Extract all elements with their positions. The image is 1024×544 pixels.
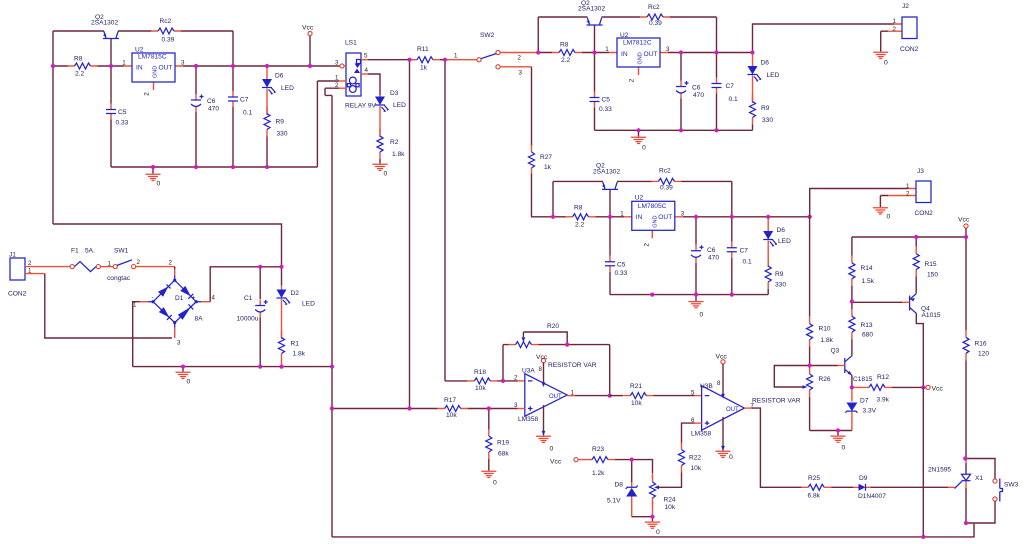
svg-text:R19: R19 [497, 440, 509, 447]
wire Q3 emitter to node [851, 375, 853, 387]
wire bottom rail y=536.9 [332, 523, 974, 537]
svg-text:0: 0 [842, 444, 846, 451]
svg-text:330: 330 [277, 131, 288, 138]
LED D6 [266, 66, 268, 115]
svg-text:LM7812C: LM7812C [623, 40, 652, 47]
ground R19 [488, 459, 490, 471]
junction block3 (696,216.8) [694, 215, 698, 219]
capacitor C7 0.1 [228, 91, 238, 107]
wire R27 to rail [532, 174, 554, 217]
junction U3B net (631.7,459.6) [630, 458, 634, 462]
svg-text:3: 3 [519, 70, 523, 77]
svg-text:10000u: 10000u [237, 316, 259, 323]
wire D9 to SCR gate [871, 486, 948, 488]
wire C6 column [195, 66, 197, 167]
wire pin6 to R22 [695, 422, 702, 424]
wire bridge pin4 up to C1 rail [202, 301, 211, 303]
junction block3 (809.7,216.8) [808, 215, 812, 219]
svg-text:470: 470 [693, 92, 704, 99]
svg-text:4: 4 [212, 295, 216, 302]
svg-text:RESISTOR VAR: RESISTOR VAR [752, 397, 801, 404]
capacitor C6 470 [191, 94, 204, 112]
svg-text:R10: R10 [819, 326, 831, 333]
wire left rail x=53 [52, 31, 54, 224]
svg-text:1: 1 [893, 18, 897, 25]
svg-text:D3: D3 [390, 90, 399, 97]
capacitor C1 10000u [259, 267, 261, 299]
Vcc port top right [964, 224, 968, 228]
resistor R21 10k [610, 395, 623, 397]
svg-text:2: 2 [169, 260, 173, 267]
svg-text:F1: F1 [71, 248, 79, 255]
junction bias net (851.9,387.4) [850, 385, 854, 389]
svg-text:2: 2 [518, 55, 522, 62]
svg-text:1: 1 [122, 60, 126, 67]
svg-text:Vcc: Vcc [716, 353, 728, 360]
junction U3A net (409.5,408.5) [407, 406, 411, 410]
svg-text:1: 1 [335, 75, 339, 82]
LED D3 [379, 95, 381, 137]
capacitor C7 0.1 [712, 78, 722, 94]
switch SW1 congtac [113, 265, 117, 269]
svg-text:120: 120 [978, 350, 989, 357]
junction U3A net (503,380.9) [501, 379, 505, 383]
svg-text:0: 0 [157, 181, 161, 188]
svg-text:3: 3 [181, 60, 185, 67]
svg-text:Rc2: Rc2 [648, 4, 660, 11]
svg-text:SW2: SW2 [480, 32, 495, 39]
svg-text:LS1: LS1 [345, 40, 357, 47]
switch SW3 pushbutton [993, 479, 997, 483]
wire ground rail y=294.6 [610, 294, 768, 296]
svg-text:2: 2 [893, 26, 897, 33]
junction (233,167) [231, 165, 235, 169]
capacitor C7 0.1 [727, 242, 737, 258]
svg-text:10k: 10k [691, 465, 702, 472]
svg-text:OUT: OUT [549, 394, 562, 400]
svg-text:LM358: LM358 [691, 430, 711, 437]
svg-text:-: - [152, 295, 154, 302]
svg-text:C1: C1 [244, 295, 253, 302]
svg-text:2: 2 [335, 82, 339, 89]
svg-text:10k: 10k [631, 400, 642, 407]
junction bottom net (966,523) [964, 521, 968, 525]
svg-text:0.39: 0.39 [649, 20, 662, 27]
wire fuse to SW1 [100, 266, 113, 268]
relay pin 4 wire to D3 [361, 73, 368, 75]
svg-text:0.33: 0.33 [599, 106, 612, 113]
svg-text:0: 0 [493, 480, 497, 487]
svg-text:Vcc: Vcc [536, 354, 548, 361]
wire feedback riser x=503 [502, 345, 504, 381]
svg-text:SW3: SW3 [1004, 482, 1019, 489]
svg-text:C5: C5 [602, 97, 611, 104]
junction (652.3,294.6) [650, 293, 654, 297]
junction block3 (553,216.8) [551, 215, 555, 219]
regulator U2 LM7805C [624, 217, 683, 239]
svg-text:LM7815C: LM7815C [138, 54, 167, 61]
svg-text:0.1: 0.1 [743, 258, 752, 265]
svg-text:8A: 8A [195, 316, 204, 323]
wire bridge minus ground rail y=366.6 [133, 366, 332, 368]
svg-text:3.9k: 3.9k [877, 397, 890, 404]
svg-text:R13: R13 [861, 322, 873, 329]
svg-text:2.2: 2.2 [575, 221, 584, 228]
svg-text:CON2: CON2 [8, 291, 27, 298]
transistor Q3 C1815 [844, 358, 846, 373]
svg-text:J3: J3 [917, 168, 924, 175]
resistor R2 1.8k [377, 129, 383, 159]
connector J2 CON2 [888, 24, 902, 31]
svg-text:U3A: U3A [522, 368, 535, 375]
relay pin 2 wire [339, 87, 346, 89]
junction (196,167) [194, 165, 198, 169]
svg-text:1.8k: 1.8k [821, 337, 834, 344]
switch SW2 [477, 58, 481, 62]
wire ground rail y=130.3 [595, 129, 753, 131]
svg-text:R9: R9 [775, 271, 784, 278]
svg-text:Rc2: Rc2 [659, 168, 671, 175]
svg-text:10k: 10k [475, 385, 486, 392]
wire R14 column [851, 237, 853, 309]
svg-text:1: 1 [133, 302, 137, 309]
ground R2 [379, 159, 381, 164]
svg-text:OUT: OUT [658, 214, 672, 221]
wire R23 to D8 and R24 [615, 460, 653, 473]
svg-text:GND: GND [638, 52, 644, 64]
resistor R13 680 [849, 309, 855, 339]
regulator U2 LM7812C [609, 53, 668, 76]
relay coil [349, 77, 356, 84]
wire left riser x=553 [552, 181, 554, 216]
svg-text:C5: C5 [118, 109, 127, 116]
bridge rectifier D1 8A [148, 276, 202, 328]
junction (332,366.6) [330, 365, 334, 369]
svg-text:470: 470 [708, 254, 719, 261]
junction R11 net (409.5,59.7) [407, 58, 411, 62]
wire riser to J3 [810, 189, 908, 217]
svg-text:A1015: A1015 [922, 312, 941, 319]
resistor R12 3.9k [852, 386, 862, 388]
junction block1 (310,66) [308, 64, 312, 68]
wire SW2 throw2 to block2 [500, 52, 538, 54]
relay pin 3 circle [340, 64, 344, 68]
relay pin 5 wire [361, 59, 368, 61]
svg-text:1: 1 [605, 46, 609, 53]
svg-text:congtac: congtac [107, 275, 131, 282]
junction U3B net (652.5,516.7) [650, 515, 654, 519]
svg-text:+: + [192, 295, 196, 302]
svg-text:0: 0 [887, 213, 891, 220]
wire Q4 collector jog [916, 313, 923, 387]
junction bottom net (965.3,458.5) [963, 456, 967, 460]
svg-text:1.5k: 1.5k [862, 278, 875, 285]
Vcc port R12 [923, 386, 926, 388]
capacitor C6 470 [676, 81, 689, 99]
svg-text:0.1: 0.1 [243, 110, 252, 117]
junction (716.5,130.3) [714, 128, 718, 132]
junction U3A net (332,408.5) [330, 406, 334, 410]
svg-text:R9: R9 [761, 105, 770, 112]
svg-text:D8: D8 [615, 482, 624, 489]
capacitor C5 0.33 [590, 92, 600, 108]
pot R20 wiper bracket [523, 332, 567, 345]
junction (638.5,130.3) [636, 128, 640, 132]
svg-text:R17: R17 [444, 397, 456, 404]
svg-text:R21: R21 [630, 383, 642, 390]
junction (681,130.3) [679, 128, 683, 132]
svg-text:C6: C6 [692, 85, 701, 92]
resistor R15 150 [915, 237, 917, 247]
svg-text:D2: D2 [291, 290, 300, 297]
zener D8 5.1V [631, 460, 633, 482]
svg-text:2SA1302: 2SA1302 [578, 6, 605, 13]
svg-text:R16: R16 [975, 340, 987, 347]
svg-text:5.1V: 5.1V [607, 498, 621, 505]
wire right column x=233 [232, 31, 234, 167]
SCR X1 2N1595 [965, 459, 967, 489]
wire top rail y=31 [53, 30, 233, 32]
wire R16 to SCR anode [965, 360, 967, 458]
junction input (281.5,266.8) [279, 265, 283, 269]
svg-text:R2: R2 [390, 139, 399, 146]
Vcc port U3B [721, 360, 725, 364]
wire main rail y=216.8 [553, 216, 810, 218]
junction R11 net (445,59.7) [443, 58, 447, 62]
relay pin 1 wire [339, 80, 346, 82]
svg-text:8: 8 [717, 380, 721, 387]
svg-text:SW1: SW1 [114, 248, 129, 255]
wire D6 R9 column [752, 125, 754, 131]
svg-text:Vcc: Vcc [550, 458, 562, 465]
svg-text:4: 4 [365, 67, 369, 74]
wire SW3 bracket top [966, 459, 995, 479]
wire top rail y=181.4 [553, 180, 732, 182]
ground block1 [152, 167, 154, 174]
svg-text:1.8k: 1.8k [392, 151, 405, 158]
wire bridge pin1 to ground rail [140, 301, 148, 303]
svg-text:2SA1302: 2SA1302 [593, 168, 620, 175]
resistor R10 1.8k [809, 217, 811, 317]
svg-text:RESISTOR VAR: RESISTOR VAR [548, 362, 597, 369]
svg-text:C7: C7 [240, 97, 249, 104]
svg-text:5: 5 [364, 53, 368, 60]
U3A pin4 ground [543, 405, 545, 436]
svg-text:10k: 10k [446, 412, 457, 419]
svg-text:3: 3 [681, 210, 685, 217]
svg-text:2: 2 [643, 243, 650, 247]
svg-text:1: 1 [906, 183, 910, 190]
junction bias net (966,237) [964, 235, 968, 239]
svg-text:Vcc: Vcc [958, 217, 970, 224]
svg-text:CON2: CON2 [915, 210, 934, 217]
resistor R11 1k [440, 59, 445, 61]
svg-text:CON2: CON2 [900, 46, 919, 53]
svg-text:2N1595: 2N1595 [928, 467, 951, 474]
zener D7 3.3V [851, 387, 853, 401]
diode D9 D1N4007 [853, 486, 871, 488]
junction block3 (731.8,216.8) [730, 215, 734, 219]
resistor R1 1.8k [279, 331, 285, 361]
svg-text:0.33: 0.33 [615, 270, 628, 277]
svg-text:R9: R9 [276, 119, 285, 126]
svg-text:IN: IN [636, 214, 643, 221]
junction bias net (851.9,301.5) [850, 299, 854, 303]
svg-text:6.8k: 6.8k [808, 492, 821, 499]
wire left riser x=538.25 [537, 17, 539, 53]
svg-text:0: 0 [384, 171, 388, 178]
junction bias net (809.6,365.5) [808, 363, 812, 367]
junction U3A net (567.2,344.6) [565, 343, 569, 347]
wire bridge pin3 stub [174, 328, 176, 339]
resistor R17 10k [438, 406, 468, 412]
wire R10 to junction [809, 347, 811, 366]
svg-text:10k: 10k [665, 504, 676, 511]
wire R24 D8 to ground [652, 502, 654, 517]
svg-text:U2: U2 [135, 47, 144, 54]
svg-text:1k: 1k [420, 65, 428, 72]
LED D2 [281, 267, 283, 285]
wire R22 to R24 wiper [659, 473, 682, 488]
fuse F1 5A [70, 265, 74, 269]
svg-text:0.39: 0.39 [162, 37, 175, 44]
svg-text:C6: C6 [707, 247, 716, 254]
resistor R18 10k [467, 378, 497, 384]
svg-text:IN: IN [621, 51, 628, 58]
wire D6 R9 column [266, 137, 268, 168]
junction block2 (752.5,52.5) [750, 50, 754, 54]
junction block3 (610,216.8) [608, 215, 612, 219]
svg-text:0.1: 0.1 [729, 96, 738, 103]
wire SW1 to bridge pin2 [136, 266, 175, 268]
capacitor C6 470 [691, 245, 704, 263]
wire vertical to R18 [444, 60, 446, 381]
svg-text:2.2: 2.2 [75, 71, 84, 78]
junction (183,366.6) [181, 365, 185, 369]
potentiometer R24 10k [652, 473, 654, 479]
U3B OUT wire pin7 to R25 row [744, 407, 752, 409]
svg-text:J2: J2 [902, 3, 909, 10]
wire R25 to D9 [831, 486, 853, 488]
wire C6 column [680, 53, 682, 131]
svg-text:R23: R23 [592, 446, 604, 453]
wire riser to J2 [753, 24, 895, 53]
svg-text:J1: J1 [9, 252, 16, 259]
svg-text:R1: R1 [291, 341, 300, 348]
junction block1 (196,66) [194, 64, 198, 68]
junction block3 (768.2,216.8) [766, 215, 770, 219]
transistor Q4 A1015 [909, 296, 911, 311]
wire C6 column [695, 217, 697, 295]
wire right column x=716.5 [716, 17, 718, 130]
relay LS1 box [346, 53, 361, 96]
svg-text:1k: 1k [544, 164, 552, 171]
svg-text:R25: R25 [808, 475, 820, 482]
resistor R8 2.2 [552, 50, 582, 56]
Vcc port U3A [541, 358, 545, 362]
junction block1 (267,66) [265, 64, 269, 68]
resistor R14 1.5k [849, 256, 855, 286]
ground J3 [880, 196, 888, 208]
wire top rail y=17 [538, 16, 716, 18]
svg-text:R26: R26 [819, 376, 831, 383]
LED D6 [752, 53, 754, 104]
svg-text:D9: D9 [859, 475, 868, 482]
wire J1 pin1 down and to bridge pin3 [25, 273, 45, 275]
resistor R25 6.8k [801, 484, 831, 490]
resistor R22 10k [679, 443, 685, 473]
junction bias net (923.3,387.4) [921, 385, 925, 389]
bridge diode top-left [158, 286, 169, 296]
svg-text:OUT: OUT [644, 51, 658, 58]
resistor R8 2.2 [566, 214, 596, 220]
wire SW3 bracket bottom [966, 501, 995, 523]
svg-text:R20: R20 [547, 323, 559, 330]
svg-text:OUT: OUT [159, 64, 173, 71]
junction block2 (594.5,52.5) [592, 50, 596, 54]
svg-text:680: 680 [862, 332, 873, 339]
svg-text:IN: IN [136, 64, 143, 71]
svg-text:D6: D6 [761, 60, 770, 67]
svg-text:1: 1 [620, 210, 624, 217]
svg-text:R22: R22 [689, 455, 701, 462]
Vcc port block1 [308, 31, 312, 35]
svg-text:D6: D6 [777, 227, 786, 234]
wire R17 row [332, 408, 438, 410]
junction input (260.2,266.8) [258, 265, 262, 269]
svg-text:150: 150 [927, 272, 938, 279]
svg-text:D1N4007: D1N4007 [858, 493, 886, 500]
resistor R9 330 [264, 107, 270, 137]
junction block1 (233,66) [231, 64, 235, 68]
wire R11 junction to SW2 [445, 59, 477, 61]
junction block1 (111,66) [109, 64, 113, 68]
wire R26 wiper hook [774, 366, 809, 388]
svg-text:2: 2 [137, 259, 141, 266]
junction (260.2,366.6) [258, 365, 262, 369]
svg-text:330: 330 [775, 282, 786, 289]
svg-text:330: 330 [762, 117, 773, 124]
ground rail right [810, 430, 852, 432]
svg-text:0: 0 [884, 60, 888, 67]
regulator U2 LM7815C [124, 66, 183, 90]
svg-text:3: 3 [177, 340, 181, 347]
svg-text:0.39: 0.39 [660, 184, 673, 191]
resistor Rc2 0.39 [652, 178, 682, 184]
svg-text:3: 3 [335, 60, 339, 67]
junction block1 (53,66) [51, 64, 55, 68]
svg-text:R8: R8 [74, 56, 83, 63]
svg-text:R18: R18 [474, 369, 486, 376]
svg-text:GND: GND [652, 216, 658, 228]
svg-text:U2: U2 [635, 194, 644, 201]
svg-text:2: 2 [629, 78, 636, 82]
svg-text:1: 1 [108, 260, 112, 267]
svg-text:1.8k: 1.8k [293, 351, 306, 358]
op-amp U3A LM358 [525, 374, 567, 417]
svg-text:C7: C7 [726, 83, 735, 90]
relay contacts [357, 60, 361, 64]
connector J1 CON2 [10, 258, 25, 280]
svg-text:Vcc: Vcc [932, 386, 944, 393]
junction bottom net (923.3,536.9) [921, 535, 925, 539]
svg-text:0: 0 [656, 529, 660, 536]
wire base stub Q2 [594, 25, 596, 53]
transistor Q2 (2SA1302) [602, 182, 618, 189]
svg-text:R8: R8 [560, 42, 569, 49]
svg-text:R27: R27 [540, 154, 552, 161]
svg-text:OUT: OUT [726, 407, 739, 413]
